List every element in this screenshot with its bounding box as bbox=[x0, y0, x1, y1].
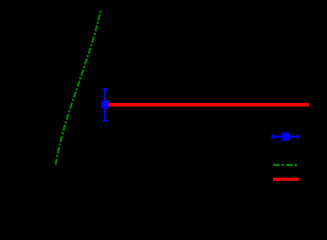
data point square marker bbox=[101, 101, 109, 109]
legend red line handle bbox=[273, 178, 299, 181]
green dash-dot model line bbox=[56, 10, 101, 165]
legend green dash-dot handle bbox=[273, 164, 297, 166]
legend square marker bbox=[282, 133, 290, 141]
errorbar vertical line bbox=[104, 88, 106, 121]
red horizontal line bbox=[105, 103, 309, 107]
legend errorbar right cap bbox=[297, 134, 299, 139]
legend errorbar left cap bbox=[271, 134, 273, 139]
legend errorbar handle line bbox=[272, 136, 298, 138]
errorbar top cap bbox=[103, 88, 107, 90]
errorbar bottom cap bbox=[103, 120, 107, 122]
